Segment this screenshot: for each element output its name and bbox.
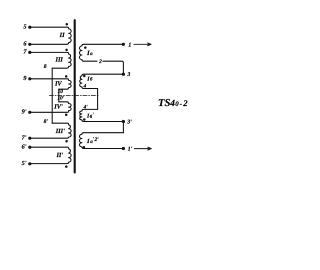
terminal 6: [28, 43, 31, 46]
node 1: [122, 43, 125, 46]
svg-text:5: 5: [23, 24, 26, 31]
phase dot winding Ia': [83, 146, 86, 149]
phase dot winding IV': [65, 113, 68, 116]
svg-text:9': 9': [22, 109, 27, 116]
svg-text:II': II': [55, 152, 63, 159]
svg-text:8: 8: [44, 64, 47, 70]
winding IV': [30, 102, 71, 113]
winding Ia': [80, 133, 124, 149]
svg-text:II: II: [59, 32, 65, 39]
svg-text:1': 1': [128, 147, 133, 153]
terminal 9: [28, 77, 31, 80]
svg-text:2': 2': [93, 137, 99, 143]
wire from node 3' to wire 2': [122, 122, 124, 133]
terminal 7: [28, 51, 31, 54]
phase dot winding II: [66, 23, 69, 26]
svg-text:1: 1: [128, 42, 131, 48]
winding III': [30, 123, 71, 138]
terminal 5: [28, 26, 31, 29]
svg-text:3: 3: [126, 72, 130, 78]
svg-text:0: 0: [175, 101, 179, 108]
winding II': [30, 147, 71, 163]
svg-text:5': 5': [22, 160, 27, 167]
phase dot winding Ia: [84, 46, 87, 49]
node 3: [122, 73, 125, 76]
svg-text:7': 7': [22, 134, 27, 141]
phase dot winding IV: [65, 75, 68, 78]
svg-text:III': III': [55, 128, 65, 135]
svg-text:9: 9: [23, 75, 26, 82]
svg-text:IV': IV': [53, 104, 63, 111]
winding Ia: [79, 44, 123, 61]
arrow at node 1': [134, 147, 151, 150]
arrow at node 1: [134, 43, 151, 46]
phase dot winding III': [65, 140, 68, 143]
winding IV: [30, 79, 71, 89]
svg-text:-: -: [180, 99, 183, 108]
winding I6': [80, 109, 124, 121]
wire link 4 to 4': [97, 89, 99, 110]
svg-text:10': 10': [57, 95, 64, 101]
svg-text:4: 4: [83, 84, 87, 90]
svg-text:2: 2: [182, 98, 188, 108]
svg-text:TS: TS: [158, 98, 170, 109]
terminal 9': [28, 111, 31, 114]
phase dot winding I6: [83, 75, 86, 78]
node 3': [122, 120, 125, 123]
winding II: [30, 27, 71, 44]
svg-text:10: 10: [58, 89, 64, 95]
svg-text:a: a: [90, 52, 93, 57]
phase dot winding III: [65, 49, 68, 52]
svg-text:7: 7: [23, 49, 27, 56]
core (transformer core vertical bar): [74, 20, 76, 172]
svg-text:III: III: [55, 57, 64, 64]
winding I6: [80, 74, 124, 88]
svg-text:6': 6': [22, 143, 27, 150]
svg-text:2: 2: [98, 59, 102, 65]
terminal 5': [28, 162, 31, 165]
svg-text:б: б: [90, 77, 93, 83]
svg-text:3': 3': [126, 120, 132, 126]
phase dot winding I6': [83, 118, 86, 121]
svg-text:': ': [92, 112, 94, 118]
phase dot winding II': [65, 165, 68, 168]
wire 2: [103, 61, 124, 74]
axis of symmetry (dash-dot centerline): [49, 95, 99, 97]
svg-text:6: 6: [23, 40, 27, 47]
terminal 6': [28, 146, 31, 149]
svg-text:8': 8': [44, 119, 49, 125]
wire stub 10: [58, 89, 60, 102]
terminal 7': [28, 137, 31, 140]
node 1': [122, 147, 125, 150]
wire link 8 to 8': [51, 68, 53, 123]
winding III: [30, 52, 71, 68]
svg-text:IV: IV: [54, 81, 62, 88]
